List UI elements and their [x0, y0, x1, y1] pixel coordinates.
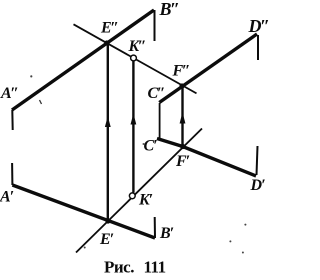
line A″B″ (frontal projection, thick) — [12, 10, 154, 110]
svg-text:111: 111 — [144, 258, 166, 277]
node F′ (crossing blob) — [180, 144, 185, 149]
tick at D″ end — [257, 35, 259, 60]
svg-text:A′: A′ — [0, 189, 14, 206]
speck dot right lower area 3 — [242, 252, 244, 254]
line C′D′ (horizontal projection, thick) — [157, 139, 256, 177]
svg-text:K′: K′ — [138, 192, 153, 209]
projection connection line K′K″ — [132, 61, 134, 193]
svg-text:B′: B′ — [159, 225, 174, 242]
auxiliary thin line through E″ K″ F″ — [74, 24, 197, 93]
svg-text:C′: C′ — [144, 138, 158, 155]
point K″ (open circle) — [131, 55, 137, 61]
arrow on E′E″ line — [105, 116, 111, 127]
speck dot right lower area 2 — [229, 240, 231, 242]
line C″D″ (frontal projection, thick) — [159, 34, 257, 103]
speck near A″ line — [40, 100, 42, 104]
svg-text:E′: E′ — [99, 231, 114, 248]
svg-text:K″: K″ — [128, 38, 147, 55]
speck dot upper left — [30, 75, 32, 77]
node E″ (crossing blob) — [104, 40, 109, 45]
speck dot near thin line end — [84, 247, 86, 249]
tick at D′ end — [257, 146, 258, 175]
svg-text:E″: E″ — [100, 20, 119, 37]
svg-text:D′: D′ — [250, 177, 266, 194]
svg-text:C″: C″ — [148, 85, 166, 102]
projection connection line E′E″ — [107, 43, 109, 221]
node E′ (crossing blob) — [105, 218, 110, 223]
point K′ (open circle) — [129, 193, 135, 199]
svg-text:B″: B″ — [159, 0, 180, 19]
projection connection line C″C′ — [159, 103, 161, 139]
tick at A″ end — [11, 110, 13, 130]
svg-text:D″: D″ — [248, 16, 270, 36]
tick at A′ end — [11, 163, 13, 185]
svg-text:F″: F″ — [172, 63, 191, 80]
svg-text:F′: F′ — [175, 153, 190, 170]
arrow on K′K″ line — [131, 114, 137, 125]
auxiliary thin line through E′ K′ F′ — [76, 129, 202, 253]
line A′B′ (horizontal projection, thick) — [12, 185, 155, 238]
arrow on F′F″ line — [180, 112, 186, 124]
svg-text:A″: A″ — [0, 85, 19, 102]
node F″ (crossing blob) — [179, 83, 184, 88]
tick at B″ end — [154, 10, 156, 41]
speck dot right lower area 1 — [244, 224, 246, 226]
svg-text:Рис.: Рис. — [104, 258, 134, 277]
projection connection line F′F″ — [181, 86, 183, 147]
tick at B′ end — [154, 217, 156, 238]
speck dot near C′ — [143, 143, 145, 145]
